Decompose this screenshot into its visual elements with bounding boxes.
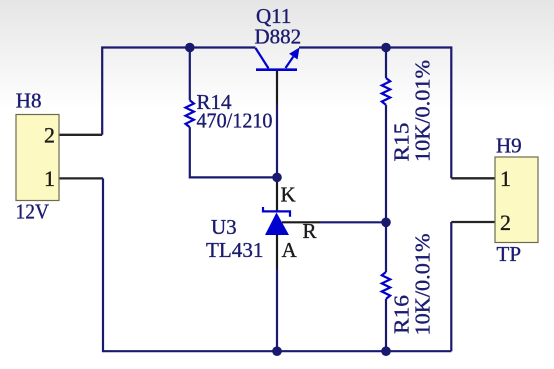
connector H8 box bbox=[16, 115, 59, 201]
svg-text:H9: H9 bbox=[496, 134, 522, 158]
svg-text:TP: TP bbox=[497, 242, 522, 266]
svg-text:TL431: TL431 bbox=[206, 238, 264, 262]
junction dot node K (R14 meets center vertical) bbox=[272, 173, 282, 183]
resistor R14 branch upper lead bbox=[189, 48, 191, 101]
svg-text:1: 1 bbox=[500, 166, 511, 191]
resistor R16 upper lead bbox=[385, 222, 387, 272]
wire: R node to R15/R16 junction bbox=[320, 221, 386, 223]
wire: top rail right segment (Q11 emitter to right corner) bbox=[299, 48, 451, 179]
svg-text:D882: D882 bbox=[255, 25, 302, 49]
resistor R16 zigzag bbox=[382, 272, 390, 299]
svg-text:2: 2 bbox=[500, 210, 511, 235]
svg-text:H8: H8 bbox=[16, 89, 42, 113]
svg-text:10K/0.01%: 10K/0.01% bbox=[411, 60, 435, 162]
junction dot top rail at R15 bbox=[381, 43, 391, 53]
junction dot bottom rail at anode bbox=[272, 346, 282, 356]
svg-text:1: 1 bbox=[44, 166, 55, 191]
svg-text:U3: U3 bbox=[211, 215, 237, 239]
svg-text:A: A bbox=[282, 238, 298, 262]
transistor Q11 base pin bbox=[276, 70, 278, 105]
junction dot top rail at R14 bbox=[185, 43, 195, 53]
wire: H9 pin 2 stub bbox=[451, 221, 495, 223]
wire: top rail left segment (H8 pin2 riser to Q11 collector) bbox=[102, 48, 255, 135]
svg-text:10K/0.01%: 10K/0.01% bbox=[411, 234, 435, 336]
resistor R16 lower lead bbox=[385, 299, 387, 351]
svg-text:K: K bbox=[281, 183, 296, 207]
resistor R15 upper lead bbox=[385, 48, 387, 79]
transistor Q11 base bar bbox=[256, 68, 297, 71]
svg-text:12V: 12V bbox=[16, 199, 50, 223]
TL431 U3 triangle bbox=[265, 213, 289, 236]
wire: TL431 R pin bbox=[282, 221, 320, 223]
wire: left drop to bottom rail bbox=[103, 178, 451, 351]
wire: H9 pin 1 stub bbox=[451, 177, 495, 179]
resistor R15 zigzag bbox=[382, 78, 390, 105]
svg-text:2: 2 bbox=[44, 123, 55, 148]
transistor Q11 collector diagonal bbox=[256, 48, 269, 68]
connector H9 box bbox=[495, 157, 538, 243]
resistor R15 lower lead bbox=[385, 105, 387, 222]
wire: TL431 anode pin down to bottom rail bbox=[276, 235, 278, 269]
wire: anode net down to bottom rail bbox=[276, 269, 278, 351]
resistor R14 zigzag bbox=[186, 100, 194, 127]
svg-text:R: R bbox=[303, 219, 317, 243]
wire: TL431 cathode pin bbox=[276, 177, 278, 211]
wire: center vertical between Q11 base and node A bbox=[276, 105, 278, 177]
transistor Q11 emitter line bbox=[286, 57, 294, 68]
junction dot node R (R15/R16 junction) bbox=[381, 218, 391, 228]
junction dot bottom rail at R16 bbox=[381, 346, 391, 356]
wire: H8 pin 1 stub bbox=[59, 177, 103, 179]
wire: right drop from H9 pin2 to bottom rail bbox=[450, 222, 452, 351]
resistor R14 lower lead to center node bbox=[190, 127, 277, 177]
svg-text:470/1210: 470/1210 bbox=[197, 109, 273, 133]
transistor Q11 emitter arrowhead bbox=[289, 48, 299, 60]
TL431 U3 cathode bar (zener style) bbox=[263, 207, 290, 217]
wire: H8 pin 2 stub bbox=[59, 134, 102, 136]
